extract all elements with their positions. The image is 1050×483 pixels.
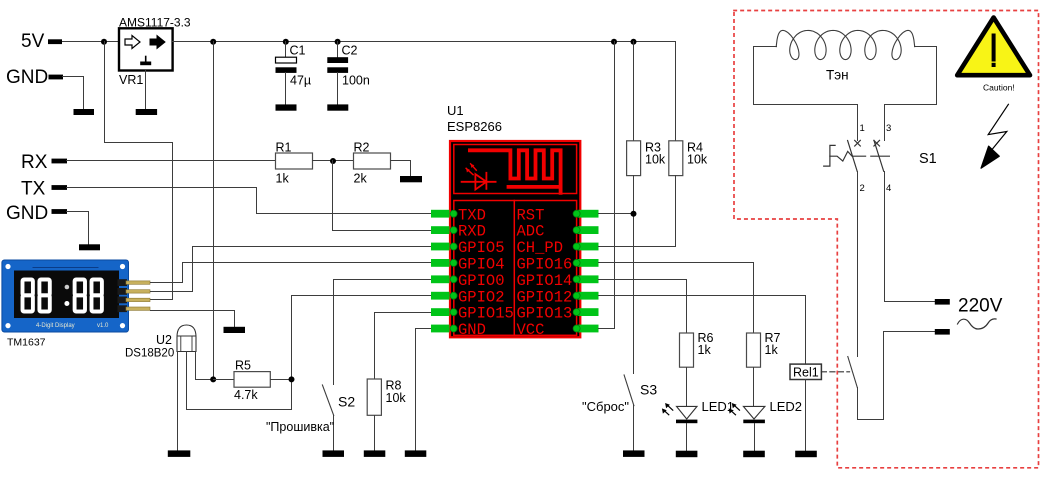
wire R8 to ground bbox=[374, 416, 376, 451]
wire C1 to ground bbox=[285, 73, 287, 105]
TM1637 pin 1 bbox=[118, 279, 128, 286]
mechanical link Rel1 to contact bbox=[821, 371, 849, 373]
switch S2 bbox=[322, 385, 333, 415]
svg-text:1k: 1k bbox=[765, 343, 779, 357]
svg-text:ESP8266: ESP8266 bbox=[447, 119, 502, 134]
caution sign bbox=[957, 18, 1030, 76]
breaker S1 bbox=[824, 140, 890, 171]
ground (C1) bbox=[276, 104, 297, 110]
ESP pin left GPIO2 bbox=[431, 292, 450, 300]
svg-text:VR1: VR1 bbox=[119, 73, 143, 87]
resistor R6 1k bbox=[680, 333, 694, 367]
junction C2 bbox=[335, 39, 341, 45]
svg-text:CH_PD: CH_PD bbox=[517, 239, 564, 257]
wire LED2 to ground bbox=[754, 424, 756, 451]
wire ESP GPIO12 to Rel1 bbox=[599, 296, 806, 365]
ESP pin left GPIO15 bbox=[431, 308, 450, 316]
lightning symbol bbox=[988, 104, 1008, 149]
ESP pin right ADC bbox=[578, 226, 599, 234]
ESP pin right GPIO16 bbox=[578, 259, 599, 267]
svg-text:R1: R1 bbox=[276, 141, 292, 155]
ground (GND2) bbox=[79, 244, 100, 250]
wire VR1 ground lead bbox=[145, 71, 147, 109]
TM1637 pin 4 bbox=[118, 305, 128, 312]
svg-text:3: 3 bbox=[886, 123, 891, 134]
wire Rel1 to ground bbox=[805, 380, 807, 451]
ground (Rel1) bbox=[795, 451, 817, 458]
svg-text:GPIO14: GPIO14 bbox=[517, 272, 573, 290]
capacitor C1 47u bbox=[285, 42, 287, 58]
ground (VR1) bbox=[136, 109, 157, 115]
wire R3 to RST junction, S3 riser bbox=[633, 176, 635, 374]
resistor R8 10k bbox=[367, 379, 381, 415]
resistor R7 1k bbox=[747, 333, 761, 367]
wire RX to R1 bbox=[67, 160, 276, 162]
wire GND2 to ground bbox=[67, 212, 89, 245]
ESP pin left GPIO5 bbox=[431, 243, 450, 251]
ground (U2) bbox=[168, 450, 191, 457]
wire ESP VCC to 3.3V rail bbox=[599, 42, 615, 329]
svg-text:LED2: LED2 bbox=[770, 399, 803, 414]
AC symbol bbox=[958, 319, 997, 329]
resistor R4 10k bbox=[669, 141, 683, 176]
svg-text:Тэн: Тэн bbox=[826, 68, 849, 83]
svg-text:LED1: LED1 bbox=[702, 399, 735, 414]
display module TM1637 bbox=[2, 260, 129, 332]
HV boundary (red dashed) bbox=[734, 11, 1039, 468]
wire TM1637 pin4 to ground bbox=[151, 311, 235, 327]
svg-text:Caution!: Caution! bbox=[983, 83, 1015, 93]
svg-text:RX: RX bbox=[21, 152, 48, 173]
relay coil Rel1 bbox=[790, 364, 821, 379]
ground (S3) bbox=[623, 450, 645, 457]
junction C1 bbox=[283, 39, 289, 45]
wire GPIO2 row bbox=[292, 295, 432, 297]
svg-text:GND: GND bbox=[458, 321, 486, 339]
junction 5V / TM1637 supply bbox=[101, 39, 107, 45]
wire GPIO0 to S2 bbox=[334, 280, 432, 385]
svg-text:RST: RST bbox=[517, 206, 545, 224]
svg-text:R2: R2 bbox=[354, 141, 370, 155]
capacitor C2 100n bbox=[337, 42, 339, 58]
svg-text:2k: 2k bbox=[354, 172, 368, 186]
ESP pin right RST bbox=[578, 210, 599, 218]
junction R5 right / GPIO2 bbox=[289, 376, 295, 382]
ESP pin left GPIO0 bbox=[431, 275, 450, 283]
resistor R3 10k bbox=[633, 42, 635, 141]
junction 3.3V / DS18B20 supply bbox=[210, 39, 216, 45]
junction R3 riser bbox=[631, 39, 637, 45]
wire relay contact to 220V lower bbox=[858, 332, 935, 420]
ground (R2) bbox=[400, 176, 422, 182]
ESP pin right GPIO13 bbox=[578, 308, 599, 316]
svg-text:C2: C2 bbox=[342, 44, 358, 58]
resistor R5 4.7k bbox=[214, 379, 235, 381]
U1 pin name labels bbox=[458, 206, 572, 339]
ESP pin right GPIO14 bbox=[578, 275, 599, 283]
svg-text:GPIO2: GPIO2 bbox=[458, 288, 505, 306]
ground (S2) bbox=[323, 450, 345, 457]
ground (TM1637) bbox=[224, 327, 246, 333]
wire S1 pin4 to 220V upper bbox=[885, 172, 935, 302]
svg-text:U2: U2 bbox=[156, 333, 172, 347]
svg-text:R5: R5 bbox=[235, 359, 251, 373]
svg-text:GPIO4: GPIO4 bbox=[458, 256, 505, 274]
wire GPIO15 to R8 bbox=[375, 313, 432, 379]
wire VR1 output 3.3V rail bbox=[173, 42, 676, 141]
wire TM1637 pin2 to GPIO5 bbox=[151, 247, 432, 292]
svg-text:10k: 10k bbox=[687, 153, 708, 167]
svg-text:GND: GND bbox=[6, 67, 48, 88]
svg-text:S3: S3 bbox=[640, 382, 657, 398]
svg-text:RXD: RXD bbox=[458, 223, 486, 241]
wire GND1 to ground bbox=[63, 77, 84, 109]
ESP antenna art bbox=[462, 150, 561, 193]
svg-text:"Прошивка": "Прошивка" bbox=[266, 420, 334, 434]
svg-text:GPIO16: GPIO16 bbox=[517, 256, 573, 274]
wire 5V terminal to VR1 input bbox=[63, 41, 119, 43]
ground (LED2) bbox=[743, 451, 765, 458]
svg-text:ADC: ADC bbox=[517, 223, 545, 241]
svg-text:4-Digit Display: 4-Digit Display bbox=[36, 323, 75, 329]
svg-text:VCC: VCC bbox=[517, 321, 545, 339]
svg-text:v1.0: v1.0 bbox=[97, 323, 109, 329]
svg-text:10k: 10k bbox=[645, 153, 666, 167]
svg-text:GND: GND bbox=[6, 203, 48, 224]
wire TM1637 pin1 to GPIO4 bbox=[151, 263, 432, 283]
switch S3 bbox=[624, 375, 634, 406]
svg-text:5V: 5V bbox=[21, 31, 45, 52]
TM1637 pin 3 bbox=[118, 297, 128, 304]
svg-text:4: 4 bbox=[886, 183, 891, 194]
wire ESP GND pin to ground bbox=[416, 329, 432, 451]
wire U2 DQ pin to GPIO2 node bbox=[187, 296, 292, 410]
wire heater left to S1 pin1 bbox=[754, 47, 858, 141]
wire heater right to S1 pin3 bbox=[885, 47, 937, 141]
relay contact (Rel1) bbox=[848, 357, 858, 388]
svg-text:2: 2 bbox=[860, 183, 865, 194]
ground (ESP GND) bbox=[405, 450, 427, 457]
svg-text:GPIO12: GPIO12 bbox=[517, 288, 573, 306]
wire LED1 to ground bbox=[686, 424, 688, 451]
svg-text:C1: C1 bbox=[290, 44, 306, 58]
resistor R1 1k bbox=[276, 153, 313, 169]
wire S1 pin2 to relay contact bbox=[857, 172, 859, 357]
ESP pin left TXD bbox=[431, 210, 450, 218]
wire C2 to ground bbox=[337, 73, 339, 105]
svg-text:4.7k: 4.7k bbox=[234, 388, 258, 402]
svg-text:220V: 220V bbox=[958, 296, 1003, 317]
junction R5 left bbox=[210, 376, 216, 382]
ESP pin left GPIO4 bbox=[431, 259, 450, 267]
wire 5V to TM1637 VCC pin bbox=[105, 42, 173, 300]
svg-text:1k: 1k bbox=[276, 172, 290, 186]
wire R6 to LED1 bbox=[686, 368, 688, 407]
svg-text:U1: U1 bbox=[447, 103, 464, 118]
svg-text:S1: S1 bbox=[919, 151, 937, 167]
ESP pin right GPIO12 bbox=[578, 292, 599, 300]
svg-text:Rel1: Rel1 bbox=[793, 365, 819, 379]
svg-text:1: 1 bbox=[860, 123, 865, 134]
svg-text:DS18B20: DS18B20 bbox=[125, 348, 174, 360]
ESP pin right VCC bbox=[578, 325, 599, 333]
ESP pin left GND bbox=[431, 325, 450, 333]
resistor R2 2k bbox=[354, 153, 391, 169]
node 220V lower terminal bbox=[935, 329, 950, 335]
svg-text:TX: TX bbox=[21, 179, 46, 200]
svg-text:GPIO5: GPIO5 bbox=[458, 239, 505, 257]
junction VCC riser bbox=[611, 39, 617, 45]
temperature sensor U2 DS18B20 bbox=[177, 325, 196, 352]
node 220V upper terminal bbox=[935, 299, 950, 305]
LED LED1 bbox=[677, 406, 698, 419]
svg-text:100n: 100n bbox=[342, 74, 370, 88]
wire R7 to LED2 bbox=[753, 368, 755, 407]
ESP pin left RXD bbox=[431, 226, 450, 234]
wire ESP RST to R3 bbox=[599, 213, 634, 215]
ground (GND1) bbox=[74, 109, 95, 115]
wire ESP GPIO14 to R6 bbox=[599, 280, 687, 333]
svg-text:GPIO13: GPIO13 bbox=[517, 305, 573, 323]
junction RXD divider bbox=[330, 158, 336, 164]
TM1637 pin 2 bbox=[118, 288, 128, 295]
wire U2 VDD pin to 3.3V node bbox=[196, 352, 214, 380]
svg-text:1k: 1k bbox=[698, 343, 712, 357]
wire ESP GPIO16 to R7 bbox=[599, 263, 754, 333]
wire divider junction to ESP RXD bbox=[333, 161, 432, 231]
ground (LED1) bbox=[676, 451, 698, 458]
svg-text:TXD: TXD bbox=[458, 206, 486, 224]
svg-text:47µ: 47µ bbox=[290, 74, 311, 88]
ground (R8) bbox=[364, 450, 386, 457]
svg-text:TM1637: TM1637 bbox=[7, 337, 46, 349]
wire 3.3V to R5/DS18B20 VDD bbox=[213, 42, 215, 380]
svg-text:"Сброс": "Сброс" bbox=[582, 399, 629, 414]
heating element Ten coil bbox=[776, 30, 915, 59]
ground (C2) bbox=[327, 104, 348, 110]
svg-text:S2: S2 bbox=[338, 394, 355, 410]
ESP pin right CH_PD bbox=[578, 243, 599, 251]
wire U2 GND pin to ground bbox=[177, 352, 179, 451]
wire R1 to R2 bbox=[313, 160, 354, 162]
LED LED2 bbox=[743, 406, 765, 419]
wire TX to ESP TXD bbox=[67, 188, 432, 214]
svg-text:10k: 10k bbox=[386, 391, 407, 405]
wire R2 to ground bbox=[391, 161, 411, 177]
wire ESP CH_PD to R4 bbox=[599, 176, 676, 247]
svg-text:GPIO15: GPIO15 bbox=[458, 305, 514, 323]
junction RST bbox=[631, 211, 637, 217]
svg-text:GPIO0: GPIO0 bbox=[458, 272, 505, 290]
